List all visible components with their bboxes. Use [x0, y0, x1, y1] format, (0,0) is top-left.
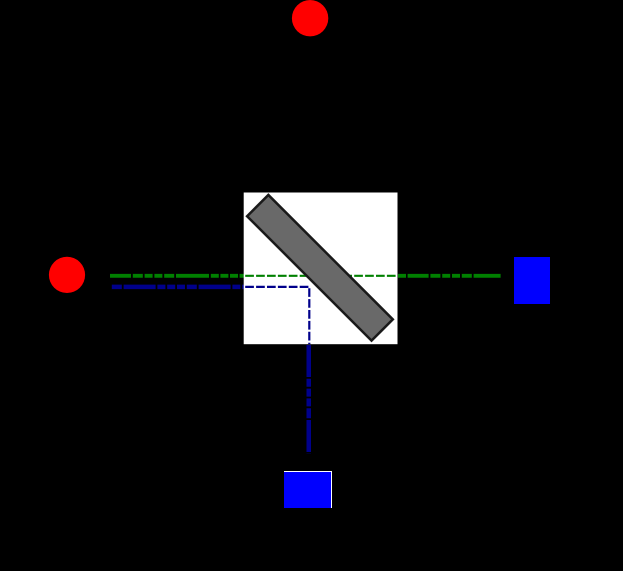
- photon left (red circle): [49, 257, 85, 293]
- wire green beam (over layer inside cube): [244, 275, 398, 277]
- detector bottom (blue rect): [284, 472, 331, 508]
- wire blue beam horizontal (under layer, merged double-dash): [112, 285, 309, 290]
- detector right (blue rect): [514, 257, 550, 304]
- wire blue beam vertical (under layer, merged double-dash): [307, 287, 312, 454]
- photon top (red circle): [292, 0, 328, 36]
- beam splitter cube (white square): [244, 193, 398, 345]
- wire blue beam (over layer inside cube): [244, 287, 310, 344]
- wire green beam (under layer, merged double-dash): [110, 274, 501, 278]
- beam splitter mirror (gray bar): [247, 195, 393, 341]
- detector bottom white edge: [284, 471, 332, 508]
